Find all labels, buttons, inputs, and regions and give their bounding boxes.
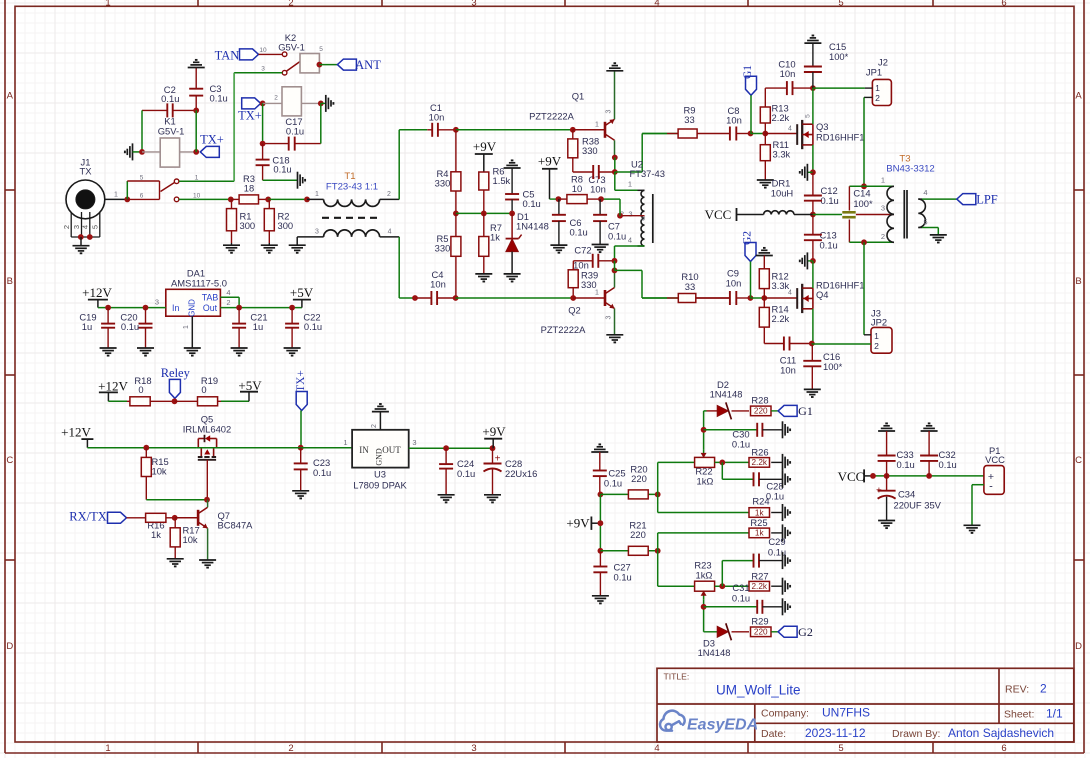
junction R20 left <box>598 492 604 498</box>
svg-text:Anton Sajdashevich: Anton Sajdashevich <box>948 726 1054 740</box>
junction C9 right G2 <box>748 295 754 301</box>
svg-text:220UF 35V: 220UF 35V <box>894 500 942 511</box>
svg-text:+9V: +9V <box>538 154 562 169</box>
junction C21 <box>236 305 242 311</box>
ground right of K2 coil <box>321 102 326 104</box>
svg-text:4: 4 <box>923 188 927 197</box>
ground under C21 <box>231 347 248 349</box>
svg-text:REV:: REV: <box>1005 684 1029 696</box>
wire R21 to trimmer R23 <box>657 551 659 586</box>
svg-text:5: 5 <box>923 218 927 227</box>
svg-text:1N4148: 1N4148 <box>710 389 743 400</box>
wire R23 wiper to D3 <box>703 599 705 632</box>
svg-text:0.1u: 0.1u <box>608 231 626 242</box>
wire JP1 pin2 down to T3 pin1 <box>864 96 872 98</box>
svg-text:2: 2 <box>288 743 293 754</box>
wire C2 left to K1 coil <box>141 110 143 151</box>
svg-text:220: 220 <box>754 628 768 637</box>
junction R3 right <box>265 197 271 203</box>
junction T3 top wire <box>861 183 867 189</box>
net flag LPF <box>957 194 976 205</box>
junction K2 coil right <box>318 101 324 107</box>
svg-text:C14: C14 <box>853 188 870 199</box>
junction C19 <box>105 305 111 311</box>
ground above Q1 <box>606 70 623 72</box>
svg-text:R26: R26 <box>751 447 768 458</box>
wire mid tap to R8 node <box>619 199 621 216</box>
svg-text:4: 4 <box>788 126 792 133</box>
wire Q7 collector up <box>207 500 209 508</box>
wire to trimmer R22 <box>657 462 659 494</box>
ground left of K1 coil <box>132 143 134 160</box>
transformer U2 winding <box>638 189 645 191</box>
ground above C3 <box>188 67 205 69</box>
wire R3 to T1 <box>268 198 307 200</box>
svg-text:IN: IN <box>359 445 369 455</box>
ground left of Q3 source <box>807 171 813 173</box>
wire Q1 base <box>573 129 605 131</box>
ground above C15 <box>804 42 821 44</box>
junction R12 bottom gate node <box>761 295 767 301</box>
net flag TX+ at K1 <box>200 146 219 157</box>
svg-text:3: 3 <box>606 109 613 113</box>
junction Q4 drain <box>810 258 816 264</box>
svg-text:0.1u: 0.1u <box>523 198 541 209</box>
svg-text:B: B <box>1075 276 1081 287</box>
svg-text:10n: 10n <box>430 279 446 290</box>
wire +12V rail left <box>87 447 196 449</box>
wire K1 NC contact to R3 row <box>179 198 231 200</box>
svg-text:Sheet:: Sheet: <box>1004 709 1034 721</box>
regulator DA1 box <box>166 289 221 316</box>
svg-text:G2: G2 <box>742 231 754 245</box>
wire T1 pin4 down to C4 row <box>398 237 400 298</box>
junction C1 right <box>453 127 459 133</box>
wire C3 junction down to K1 <box>195 110 197 151</box>
ground under D1 <box>504 273 521 275</box>
junction C24 <box>443 445 449 451</box>
junction R8 left C6 <box>556 196 562 202</box>
svg-text:4: 4 <box>654 743 659 754</box>
junction R15 top <box>143 445 149 451</box>
wire Q2 emitter to ground <box>614 309 616 335</box>
svg-text:4: 4 <box>80 225 89 229</box>
junction TX+ rail C23 <box>298 445 304 451</box>
svg-text:0: 0 <box>201 384 206 395</box>
junction C33 C34 <box>884 473 890 479</box>
svg-text:2: 2 <box>881 232 885 241</box>
ground under C28 <box>484 494 501 496</box>
wire C17 left branch <box>262 103 264 143</box>
ground under C20 <box>137 347 154 349</box>
wire DA1 input rail <box>98 307 166 309</box>
svg-text:10uH: 10uH <box>771 188 793 199</box>
junction gate node Q7 collector <box>204 497 210 503</box>
wire Q2 collector to R10 <box>615 269 643 271</box>
svg-text:G2: G2 <box>798 625 813 639</box>
svg-text:5: 5 <box>140 175 144 182</box>
wire C1 junction to Q1 base node <box>456 129 573 131</box>
svg-text:+5V: +5V <box>238 378 262 393</box>
svg-text:TAB: TAB <box>202 293 219 303</box>
svg-text:3: 3 <box>261 66 265 73</box>
svg-text:3.3k: 3.3k <box>773 149 791 160</box>
svg-text:1: 1 <box>874 331 879 341</box>
svg-text:10n: 10n <box>590 184 606 195</box>
title block frame <box>657 668 1074 742</box>
svg-text:10: 10 <box>193 193 201 200</box>
transistor Q1 <box>604 122 607 138</box>
svg-text:BC847A: BC847A <box>218 520 254 531</box>
svg-text:2: 2 <box>874 341 879 351</box>
svg-text:0.1u: 0.1u <box>939 459 957 470</box>
wire Q4 drain up <box>812 261 814 288</box>
junction C31 node <box>701 604 707 610</box>
svg-text:1kΩ: 1kΩ <box>697 476 714 487</box>
svg-text:220: 220 <box>631 473 647 484</box>
wire Q3 source to ground node <box>812 145 814 172</box>
wire VCC row to P1 <box>873 475 984 477</box>
junction VCC row <box>810 212 816 218</box>
ground under R17 <box>167 558 184 560</box>
junction mid rail C5-D1 <box>509 211 515 217</box>
ground under J1 <box>80 237 82 246</box>
svg-text:1.5k: 1.5k <box>493 175 511 186</box>
ground right of C30 <box>782 421 784 438</box>
svg-text:TAN: TAN <box>215 49 240 63</box>
svg-text:Q1: Q1 <box>572 91 585 102</box>
wire Q2 base <box>573 297 605 299</box>
svg-text:C29: C29 <box>768 536 785 547</box>
transformer U2 core <box>652 194 654 243</box>
wire Q1 emitter to ground <box>614 71 616 120</box>
svg-text:UN7FHS: UN7FHS <box>822 706 870 720</box>
svg-text:300: 300 <box>278 220 294 231</box>
junction J1 pins <box>78 234 84 240</box>
svg-text:100*: 100* <box>823 361 843 372</box>
ground under R11 <box>757 179 774 181</box>
svg-text:4: 4 <box>788 290 792 297</box>
svg-text:0.1u: 0.1u <box>304 321 322 332</box>
ground under DA1 <box>184 347 201 349</box>
EasyEDA logo <box>660 711 685 731</box>
wire R22 right to R26 <box>715 461 749 463</box>
wire Q2 collector <box>614 270 616 287</box>
ground right of R26 <box>771 461 782 463</box>
svg-text:2: 2 <box>875 93 880 103</box>
svg-text:10: 10 <box>572 183 582 194</box>
svg-text:33: 33 <box>684 114 694 125</box>
svg-text:330: 330 <box>582 145 598 156</box>
wire T3 pin4 to LPF <box>922 198 957 200</box>
junction Q3 source <box>810 169 816 175</box>
wire collector node to R9 branch <box>615 171 642 173</box>
svg-text:2: 2 <box>288 0 293 8</box>
wire P1 minus to ground <box>972 484 984 486</box>
svg-text:UM_Wolf_Lite: UM_Wolf_Lite <box>716 683 801 698</box>
ground under C19 <box>100 347 117 349</box>
svg-text:220: 220 <box>630 529 646 540</box>
svg-text:Company:: Company: <box>761 708 809 720</box>
svg-text:C34: C34 <box>898 489 915 500</box>
svg-text:100*: 100* <box>829 51 849 62</box>
junction mid rail R6-R7 <box>481 211 487 217</box>
svg-text:1/1: 1/1 <box>1046 707 1063 721</box>
junction T3 bottom wire <box>861 239 867 245</box>
relay K2 contact switch <box>259 53 283 55</box>
svg-text:1N4148: 1N4148 <box>698 647 731 658</box>
ground under T3 pin5 <box>930 234 947 236</box>
wire K1 NO contact to TX line <box>179 180 234 182</box>
svg-text:220: 220 <box>754 407 768 416</box>
ground right of R24 <box>771 512 782 514</box>
svg-text:VCC: VCC <box>838 469 865 484</box>
ground under C24 <box>438 494 455 496</box>
svg-text:10n: 10n <box>726 115 742 126</box>
svg-text:3.3k: 3.3k <box>772 280 790 291</box>
svg-text:10n: 10n <box>780 365 796 376</box>
wire K2 lower contact to long TX line <box>234 72 282 74</box>
wire R20 to R24 <box>657 494 659 512</box>
wire Q5 gate down <box>206 460 208 500</box>
ground under Q7 <box>199 559 216 561</box>
junction VCC a <box>870 473 876 479</box>
svg-text:2.2k: 2.2k <box>752 582 768 591</box>
svg-text:5: 5 <box>90 225 99 229</box>
svg-text:C: C <box>1075 455 1082 466</box>
ground under C34 <box>878 520 895 522</box>
svg-text:IRLML6402: IRLML6402 <box>183 424 231 435</box>
junction C72 right <box>612 258 618 264</box>
wire R14 to C11 <box>763 327 765 343</box>
wire DA1 output rail <box>220 307 302 309</box>
ground under C6 <box>550 244 567 246</box>
ground under C23 <box>292 490 309 492</box>
wire Q3 drain <box>812 88 814 124</box>
svg-text:100*: 100* <box>853 198 873 209</box>
svg-text:Date:: Date: <box>761 728 786 740</box>
svg-text:1: 1 <box>105 743 110 754</box>
svg-text:R25: R25 <box>750 517 767 528</box>
net flag G1 at C8 <box>746 76 757 95</box>
svg-text:2: 2 <box>387 191 391 198</box>
svg-text:0.1u: 0.1u <box>897 459 915 470</box>
wire VCC row to T3 mid tap <box>813 214 842 216</box>
wire C4 row to Q2 base <box>456 297 574 299</box>
junction R39 bottom Q2 base <box>570 295 576 301</box>
svg-text:1: 1 <box>183 325 190 329</box>
wire U2 pin1 <box>614 172 616 190</box>
svg-text:1u: 1u <box>253 321 263 332</box>
svg-text:T1: T1 <box>344 171 355 182</box>
wire Q4 source down <box>812 309 814 344</box>
wire C17 right up to ground node <box>320 103 322 143</box>
svg-text:+9V: +9V <box>482 424 506 439</box>
wire J3 pin2 to C11 node <box>811 343 813 346</box>
svg-text:4: 4 <box>388 229 392 236</box>
svg-text:R27: R27 <box>751 571 768 582</box>
wire R15 bottom to gate node <box>146 499 207 501</box>
junction J1 output node <box>124 197 130 203</box>
junction C28b node <box>719 460 725 466</box>
svg-text:1: 1 <box>875 83 880 93</box>
ground right of C29 <box>782 552 784 569</box>
svg-text:18: 18 <box>244 183 254 194</box>
junction Q1 base <box>570 127 576 133</box>
svg-text:Drawn By:: Drawn By: <box>892 728 940 740</box>
svg-text:1k: 1k <box>490 232 500 243</box>
svg-text:4: 4 <box>226 288 230 297</box>
transistor Q5 IRLML6402 <box>197 439 199 448</box>
transformer T3 core <box>903 190 905 239</box>
ground above U3 <box>379 412 381 430</box>
svg-text:2.2k: 2.2k <box>772 313 790 324</box>
svg-text:2: 2 <box>1040 682 1047 696</box>
svg-text:0.1u: 0.1u <box>210 93 228 104</box>
svg-text:+12V: +12V <box>98 379 128 394</box>
svg-text:VCC: VCC <box>705 207 732 222</box>
svg-text:2: 2 <box>274 95 278 102</box>
svg-text:1: 1 <box>595 290 599 297</box>
wire mid rail <box>456 212 512 214</box>
ground right of C28b <box>782 471 784 488</box>
svg-text:330: 330 <box>435 178 451 189</box>
svg-text:BN43-3312: BN43-3312 <box>886 164 935 175</box>
junction Q2 collector node <box>612 268 618 274</box>
svg-text:JP1: JP1 <box>866 67 882 78</box>
svg-text:0.1u: 0.1u <box>457 468 475 479</box>
svg-text:5: 5 <box>838 0 843 8</box>
svg-text:TX+: TX+ <box>295 370 307 392</box>
net flag G2 right <box>771 631 778 633</box>
svg-text:3: 3 <box>155 298 159 307</box>
ground under R1 <box>223 244 240 246</box>
svg-text:JP2: JP2 <box>871 317 887 328</box>
svg-text:1k: 1k <box>755 529 765 538</box>
svg-text:0.1u: 0.1u <box>614 572 632 583</box>
svg-text:1: 1 <box>595 122 599 129</box>
wire T3 pin2 row <box>849 241 894 243</box>
svg-text:FT37-43: FT37-43 <box>630 168 665 179</box>
svg-text:5: 5 <box>838 743 843 754</box>
wire C9 to R12 node <box>750 297 764 299</box>
junction Q1 collector <box>612 155 618 161</box>
junction K2 to ANT <box>317 62 323 68</box>
ground right of C31 <box>782 598 784 615</box>
svg-text:LPF: LPF <box>976 193 998 207</box>
wire TX+ down to rail <box>300 411 302 448</box>
svg-text:6: 6 <box>140 193 144 200</box>
svg-text:2023-11-12: 2023-11-12 <box>805 726 866 740</box>
junction R21 left <box>598 548 604 554</box>
wire C8 to R13 node <box>751 133 766 135</box>
junction C28cap <box>490 445 496 451</box>
svg-text:In: In <box>172 303 179 313</box>
wire T3 pin5 to ground <box>922 227 938 229</box>
ground under C27 <box>592 595 609 597</box>
relay K2 coil <box>282 87 301 116</box>
svg-text:Out: Out <box>203 303 218 313</box>
ground under C22 <box>284 347 301 349</box>
svg-text:RX/TX: RX/TX <box>69 510 107 524</box>
junction R20 right <box>655 492 661 498</box>
junction C4 left <box>412 295 418 301</box>
junction C20 <box>143 305 149 311</box>
wire C25 column <box>599 494 601 550</box>
svg-text:R24: R24 <box>752 496 769 507</box>
junction C10 right <box>810 85 816 91</box>
svg-text:10k: 10k <box>183 534 198 545</box>
svg-text:1: 1 <box>105 0 110 8</box>
ground above C33 <box>878 430 895 432</box>
wire R22 wiper to D2 <box>703 411 705 450</box>
svg-text:1k: 1k <box>755 508 765 517</box>
svg-text:6: 6 <box>1001 0 1006 8</box>
relay K1 contact switch <box>126 181 128 199</box>
svg-text:-: - <box>989 481 993 493</box>
svg-text:B: B <box>7 276 13 287</box>
svg-text:1k: 1k <box>151 529 161 540</box>
transformer T3 primary winding <box>887 186 894 242</box>
wire J3 vertical <box>863 242 865 334</box>
svg-text:33: 33 <box>685 281 695 292</box>
wire Q1 collector down <box>614 140 616 157</box>
net flag TAN <box>240 49 259 60</box>
transistor Q2 <box>604 290 607 306</box>
svg-text:C31: C31 <box>732 582 749 593</box>
transformer T1 primary winding <box>307 198 324 200</box>
junction +9V tap <box>598 520 604 526</box>
junction TX+ node <box>260 101 266 107</box>
wire R21 to R25 <box>657 533 659 551</box>
net flag G2 at C9 <box>745 243 756 262</box>
svg-text:0.1u: 0.1u <box>286 126 304 137</box>
ground above C32 <box>921 430 938 432</box>
ground right of R25 <box>771 532 782 534</box>
svg-text:2.2k: 2.2k <box>772 112 790 123</box>
wire Q7 emitter to ground <box>207 528 209 560</box>
junction mid rail R4-R5 <box>453 211 459 217</box>
junction R21 right <box>655 548 661 554</box>
ground under R7 <box>475 273 492 275</box>
wire +12V rail right of Q5 <box>197 447 352 449</box>
junction C2 C3 <box>193 108 199 114</box>
wire R23 right to R27 <box>715 585 749 587</box>
svg-text:G5V-1: G5V-1 <box>158 126 185 137</box>
svg-text:G1: G1 <box>798 404 813 418</box>
svg-text:1u: 1u <box>82 321 92 332</box>
net flag G1 <box>771 410 778 412</box>
junction C11 C16 J3 node <box>809 341 815 347</box>
svg-text:+5V: +5V <box>290 285 314 300</box>
svg-text:10n: 10n <box>726 278 742 289</box>
svg-text:OUT: OUT <box>382 445 401 455</box>
svg-text:Q4: Q4 <box>816 289 829 300</box>
wire K2 to ANT flag <box>319 64 337 66</box>
svg-text:0.1u: 0.1u <box>161 93 179 104</box>
ground left of Q4 drain <box>807 260 813 262</box>
svg-text:1: 1 <box>195 175 199 182</box>
junction C4 right R5 <box>453 295 459 301</box>
wire long vertical TX line <box>233 73 235 182</box>
svg-text:1: 1 <box>343 438 347 447</box>
svg-text:Reley: Reley <box>161 366 191 380</box>
svg-text:R29: R29 <box>751 616 768 627</box>
junction R8 right C7 <box>598 196 604 202</box>
svg-text:+12V: +12V <box>82 285 112 300</box>
svg-text:Q2: Q2 <box>568 305 581 316</box>
svg-text:C72: C72 <box>574 245 591 256</box>
